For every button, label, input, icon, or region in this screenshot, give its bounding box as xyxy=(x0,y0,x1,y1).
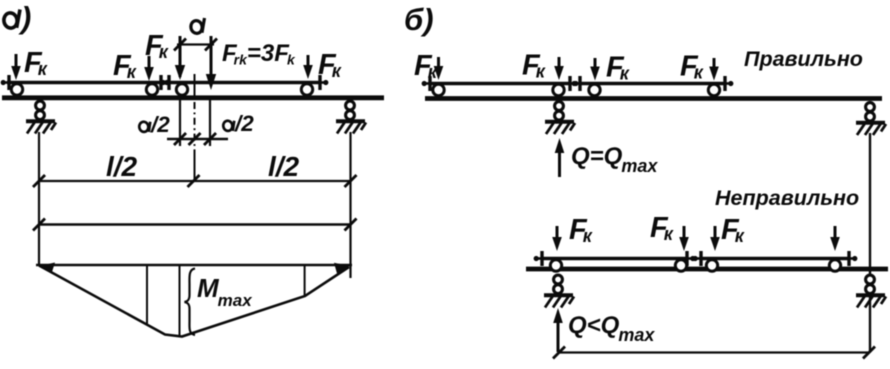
resultant force Frk long xyxy=(206,36,216,90)
force B2-4 xyxy=(830,226,840,251)
l/2 tick mid xyxy=(188,175,200,187)
bogie B3 beam xyxy=(541,257,688,261)
dimension a line xyxy=(177,43,214,45)
extension line a/2 right xyxy=(209,100,211,146)
dimension a/2 line xyxy=(167,138,228,140)
bogie B3 left buffer xyxy=(534,251,542,266)
extension line left support xyxy=(38,132,40,265)
dimension l/2 line xyxy=(39,180,351,182)
label a xyxy=(190,18,205,34)
moment arrow left xyxy=(39,263,55,273)
svg-text:Q<Qmax: Q<Qmax xyxy=(568,312,655,345)
wheel B1 xyxy=(433,84,444,95)
moment arrow right xyxy=(334,263,350,274)
span line 2 xyxy=(39,223,351,225)
main beam A xyxy=(2,95,384,100)
force Fk3 long xyxy=(175,36,185,80)
label a) xyxy=(3,0,32,35)
main beam B1 xyxy=(425,96,882,101)
svg-text:Fк: Fк xyxy=(145,30,169,62)
wheel A2 xyxy=(146,84,157,95)
force B1-2 xyxy=(554,57,564,80)
wheel B7 xyxy=(706,260,717,271)
main beam B2 xyxy=(526,267,888,272)
label a/2 right xyxy=(222,111,254,136)
bottom dim tick right xyxy=(863,347,875,359)
svg-text:l/2: l/2 xyxy=(268,151,300,182)
wheel A3 xyxy=(176,84,187,95)
bogie A1 beam xyxy=(7,81,163,85)
svg-text:Fк: Fк xyxy=(113,50,137,82)
svg-text:Mmax: Mmax xyxy=(197,273,253,310)
svg-text:Q=Qmax: Q=Qmax xyxy=(571,143,658,176)
bogie B2 left buffer xyxy=(572,76,580,91)
support B1 left xyxy=(545,102,575,134)
svg-text:/2: /2 xyxy=(234,111,254,136)
support A left xyxy=(26,101,56,133)
bogie B1 beam xyxy=(429,82,571,86)
a/2 tick mid xyxy=(189,133,201,145)
svg-text:/2: /2 xyxy=(150,112,170,137)
force B2-3 xyxy=(710,226,720,251)
force B1-4 xyxy=(709,58,719,81)
svg-text:Fк: Fк xyxy=(522,50,546,82)
dimension a tick right xyxy=(205,39,217,51)
force B1-1 xyxy=(434,57,444,80)
svg-text:Правильно: Правильно xyxy=(744,47,863,71)
support B1 right xyxy=(856,103,886,135)
moment ordinate 2 xyxy=(179,266,181,335)
bogie B2 right buffer xyxy=(725,76,733,91)
bogie A2 buffer left xyxy=(161,75,169,90)
svg-text:Fк: Fк xyxy=(650,212,674,244)
force Fk5 xyxy=(303,55,313,79)
bogie B4 right buffer xyxy=(849,251,857,266)
wheel A1 xyxy=(11,84,22,95)
l/2 tick left xyxy=(33,175,45,187)
force Fk1 xyxy=(11,54,21,80)
bogie A1 left buffer xyxy=(1,75,9,90)
label a/2 left xyxy=(138,112,170,137)
svg-text:l/2: l/2 xyxy=(106,151,138,182)
bogie B2 beam xyxy=(580,82,726,86)
svg-text:Fк: Fк xyxy=(721,214,745,246)
moment diagram polygon xyxy=(39,266,349,337)
svg-text:Fк: Fк xyxy=(414,50,438,82)
reaction Q<Qmax arrow xyxy=(553,308,563,352)
line 2 tick right xyxy=(345,219,357,231)
line 2 tick left xyxy=(33,219,45,231)
extension line a/2 left xyxy=(179,100,181,146)
wheel B6 xyxy=(675,260,686,271)
support B2 right xyxy=(856,275,886,307)
force Fk2 xyxy=(144,56,154,81)
a/2 tick left xyxy=(174,133,186,145)
svg-text:Fк: Fк xyxy=(318,49,342,81)
bogie B4 left buffer xyxy=(693,251,701,266)
force B2-2 xyxy=(679,226,689,251)
dimension a tick left xyxy=(174,39,186,51)
bogie A2 right buffer xyxy=(320,75,328,90)
svg-text:б): б) xyxy=(404,2,434,37)
bogie A2 beam xyxy=(169,81,321,85)
bogie B3 right buffer xyxy=(687,251,695,266)
extension line right support xyxy=(349,132,351,278)
long extension line right xyxy=(869,133,871,353)
svg-text:Fк: Fк xyxy=(680,51,704,83)
wheel B3 xyxy=(589,84,600,95)
wheel B4 xyxy=(708,84,719,95)
support A right xyxy=(336,101,366,133)
wheel B2 xyxy=(553,84,564,95)
moment ordinate 1 xyxy=(146,266,148,325)
force B2-1 xyxy=(552,226,562,251)
moment ordinate 3 xyxy=(304,266,306,296)
bottom dimension line xyxy=(559,351,869,353)
moment baseline xyxy=(36,264,352,267)
brace Mmax xyxy=(185,269,196,336)
svg-text:Fк: Fк xyxy=(606,52,630,84)
support B2 left xyxy=(544,275,574,307)
bogie B4 beam xyxy=(701,257,850,261)
svg-text:Fк: Fк xyxy=(24,47,48,79)
centerline dash-dot xyxy=(194,74,196,181)
bottom dim tick left xyxy=(553,347,565,359)
svg-text:Неправильно: Неправильно xyxy=(715,186,859,210)
bogie B1 right buffer xyxy=(570,76,578,91)
bogie B1 left buffer xyxy=(422,76,430,91)
l/2 tick right xyxy=(345,175,357,187)
reaction Q=Qmax arrow xyxy=(555,138,565,177)
a/2 tick right xyxy=(204,133,216,145)
svg-text:Fк: Fк xyxy=(569,214,593,246)
wheel B5 xyxy=(550,260,561,271)
wheel A4 xyxy=(301,84,312,95)
wheel B8 xyxy=(829,260,840,271)
force B1-3 xyxy=(590,58,600,81)
bogie A1 right buffer xyxy=(161,75,169,90)
svg-text:Frk=3Fk: Frk=3Fk xyxy=(222,40,296,68)
